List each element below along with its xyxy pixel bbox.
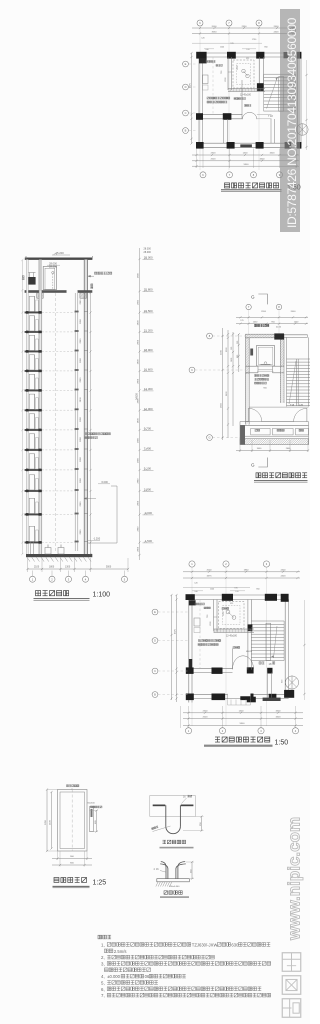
svg-text:2100: 2100: [50, 819, 52, 825]
svg-text:2600: 2600: [291, 311, 297, 313]
svg-text:4675: 4675: [190, 82, 192, 88]
svg-text:2800: 2800: [138, 398, 140, 404]
svg-text:1:25: 1:25: [93, 880, 107, 887]
svg-text:-0.000: -0.000: [144, 511, 153, 515]
svg-text:2800: 2800: [138, 359, 140, 365]
svg-text:2800: 2800: [80, 416, 82, 422]
svg-text:5900: 5900: [240, 723, 246, 725]
svg-text:2300: 2300: [203, 711, 209, 713]
svg-text:2800: 2800: [80, 436, 82, 442]
svg-text:2200: 2200: [45, 819, 47, 825]
svg-text:2800: 2800: [138, 546, 140, 552]
svg-text:18.900: 18.900: [144, 348, 153, 352]
svg-text:16.600: 16.600: [144, 368, 153, 372]
svg-text:7,: 7,: [101, 993, 105, 998]
svg-text:2800: 2800: [80, 456, 82, 462]
svg-text:2400: 2400: [281, 576, 287, 578]
svg-text:2800: 2800: [80, 529, 82, 535]
svg-text:-1.500: -1.500: [144, 539, 153, 543]
svg-text:2800: 2800: [80, 477, 82, 483]
svg-text:4675: 4675: [175, 628, 177, 634]
svg-text:630: 630: [231, 943, 239, 948]
svg-text:±0.000: ±0.000: [107, 974, 120, 979]
svg-text:2350: 2350: [242, 26, 248, 28]
svg-text:B: B: [154, 693, 156, 697]
svg-text:1650: 1650: [231, 358, 233, 362]
svg-text:1400: 1400: [239, 711, 245, 713]
svg-text:60x300: 60x300: [88, 803, 96, 805]
svg-text:3400: 3400: [276, 711, 282, 713]
svg-text:2300: 2300: [211, 153, 217, 155]
svg-text:C: C: [154, 669, 156, 673]
svg-text:5000: 5000: [106, 567, 112, 569]
svg-text:3,: 3,: [101, 962, 105, 967]
svg-text:2800: 2800: [138, 272, 140, 278]
svg-text:7 18: 7 18: [268, 115, 273, 118]
svg-text:2000: 2000: [207, 570, 213, 572]
svg-text:1300: 1300: [65, 567, 71, 569]
svg-text:1,: 1,: [101, 943, 105, 948]
svg-text:3400: 3400: [260, 159, 266, 161]
svg-text:E: E: [185, 62, 187, 66]
svg-text:2800: 2800: [138, 478, 140, 484]
svg-text:2800: 2800: [138, 339, 140, 345]
svg-text:C: C: [191, 368, 193, 372]
svg-text:2800: 2800: [80, 299, 82, 305]
svg-text:120: 120: [235, 591, 238, 593]
svg-text:2200: 2200: [261, 311, 267, 313]
svg-text:2000: 2000: [212, 26, 218, 28]
svg-text:2800: 2800: [80, 377, 82, 383]
svg-text:6,: 6,: [101, 987, 105, 992]
svg-text:ID:5787426 NO:2017041309340656: ID:5787426 NO:20170413093406560000: [285, 17, 299, 228]
svg-text:2800: 2800: [80, 397, 82, 403]
svg-text:M1021: M1021: [246, 651, 253, 653]
svg-text:5,: 5,: [101, 981, 105, 986]
svg-text:1240: 1240: [220, 47, 224, 49]
svg-text:120: 120: [246, 49, 249, 51]
svg-text:1240: 1240: [210, 589, 214, 591]
svg-text:1850: 1850: [244, 570, 250, 572]
svg-text:2500: 2500: [211, 159, 217, 161]
svg-text:2800: 2800: [138, 378, 140, 384]
svg-text:2400: 2400: [274, 26, 280, 28]
svg-text:1:50: 1:50: [275, 740, 289, 747]
svg-text:12-45x180: 12-45x180: [226, 636, 238, 638]
svg-text:850: 850: [264, 47, 267, 49]
svg-text:28.000: 28.000: [144, 251, 152, 254]
svg-text:2800: 2800: [138, 526, 140, 532]
svg-text:2400: 2400: [274, 31, 280, 33]
svg-text:3400: 3400: [270, 153, 276, 155]
svg-text:2,: 2,: [101, 955, 105, 960]
svg-text:5900: 5900: [244, 164, 250, 166]
svg-text:2800: 2800: [138, 437, 140, 443]
svg-text:12.000: 12.000: [144, 407, 153, 411]
svg-text:2500: 2500: [203, 716, 209, 718]
svg-text:2800: 2800: [80, 501, 82, 507]
svg-text:850: 850: [256, 589, 259, 591]
svg-text:240: 240: [194, 591, 197, 593]
svg-text:3550: 3550: [212, 31, 218, 33]
svg-text:6.000: 6.000: [102, 481, 109, 484]
svg-text:G: G: [251, 463, 255, 468]
svg-text:L60x6-300: L60x6-300: [169, 886, 180, 888]
svg-text:525: 525: [246, 58, 249, 60]
svg-text:12-45x180: 12-45x180: [240, 94, 252, 96]
svg-text:G: G: [251, 295, 255, 300]
svg-text:1400: 1400: [243, 153, 249, 155]
svg-text:2400: 2400: [281, 570, 287, 572]
svg-text:1800: 1800: [49, 567, 55, 569]
svg-text:T18: T18: [290, 404, 295, 407]
svg-text:2800: 2800: [80, 357, 82, 363]
svg-text:4,: 4,: [101, 974, 105, 979]
svg-text:21.200: 21.200: [144, 329, 153, 333]
svg-text:150: 150: [231, 347, 233, 350]
svg-text:2800: 2800: [138, 299, 140, 305]
svg-text:-1.200: -1.200: [93, 538, 101, 541]
svg-text:2800: 2800: [80, 338, 82, 344]
svg-text:23.500: 23.500: [144, 309, 153, 313]
svg-text:B: B: [185, 129, 187, 133]
svg-text:40.25: 40.25: [276, 327, 282, 329]
svg-text:L25: L25: [299, 404, 304, 407]
svg-text:D: D: [185, 85, 187, 89]
svg-text:25.800: 25.800: [144, 288, 153, 292]
svg-text:2800: 2800: [138, 418, 140, 424]
svg-text:1:100: 1:100: [93, 591, 111, 598]
svg-text:2800: 2800: [80, 318, 82, 324]
svg-text:www.nipic.com: www.nipic.com: [285, 817, 304, 941]
svg-text:525: 525: [230, 603, 233, 605]
svg-text:2.5m/s: 2.5m/s: [114, 949, 127, 954]
svg-text:TZJ630/-JXW: TZJ630/-JXW: [192, 943, 218, 948]
svg-text:3475: 3475: [207, 576, 213, 578]
svg-text:28.000: 28.000: [144, 256, 153, 260]
svg-text:3400: 3400: [276, 716, 282, 718]
svg-text:E: E: [154, 610, 156, 614]
svg-text:C: C: [185, 111, 187, 115]
svg-text:2800: 2800: [138, 457, 140, 463]
svg-text:D: D: [154, 639, 156, 643]
svg-text:2100: 2100: [34, 567, 40, 569]
svg-text:2800: 2800: [138, 500, 140, 506]
svg-text:125: 125: [240, 320, 243, 322]
svg-text:G: G: [208, 436, 210, 440]
svg-text:2800: 2800: [138, 320, 140, 326]
svg-text:14.300: 14.300: [144, 387, 153, 391]
svg-text:240: 240: [205, 49, 208, 51]
